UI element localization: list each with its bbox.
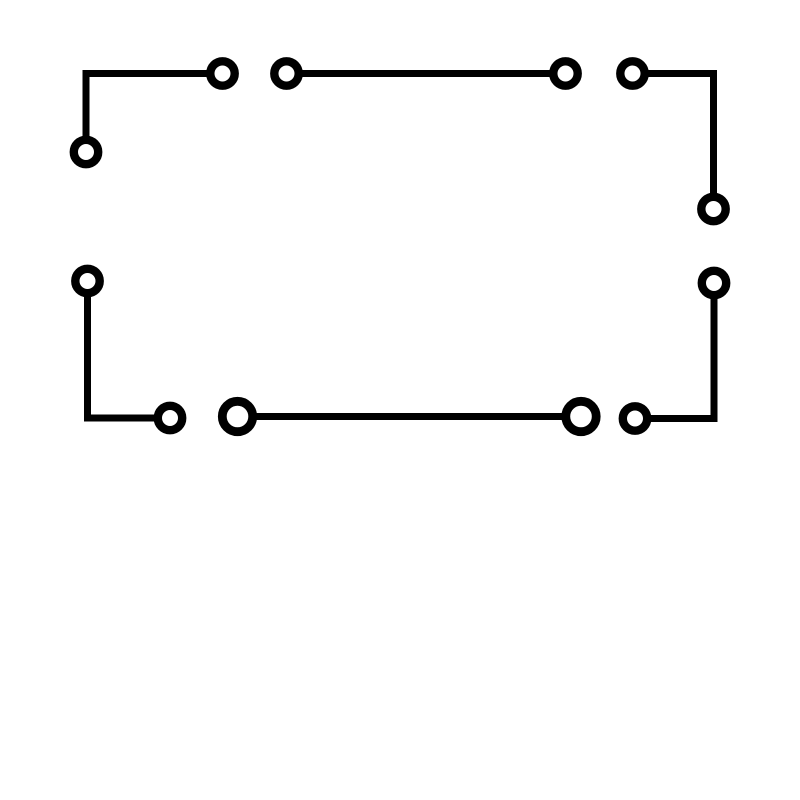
terminal T5 [620, 61, 644, 85]
terminal T10 large [566, 401, 596, 431]
terminal T6 [701, 197, 725, 221]
terminal T9 large [222, 401, 252, 431]
wire W5 bottom-middle horizontal [238, 413, 582, 420]
terminal T3 [274, 61, 298, 85]
wire W6 right L-shape [635, 283, 714, 419]
terminal T2 [74, 140, 98, 164]
wire W3 top-right L-shape [633, 74, 714, 210]
terminal T11 [702, 271, 726, 295]
terminal T4 [553, 61, 577, 85]
terminal T1 [210, 61, 234, 85]
wire W4 mid-left L-shape [88, 281, 171, 418]
terminal T7 [75, 269, 99, 293]
wire W1 top-left L-shape [86, 74, 223, 153]
wire W2 top-middle horizontal [287, 70, 566, 77]
terminal T12 [623, 406, 647, 430]
terminal T8 [158, 406, 182, 430]
